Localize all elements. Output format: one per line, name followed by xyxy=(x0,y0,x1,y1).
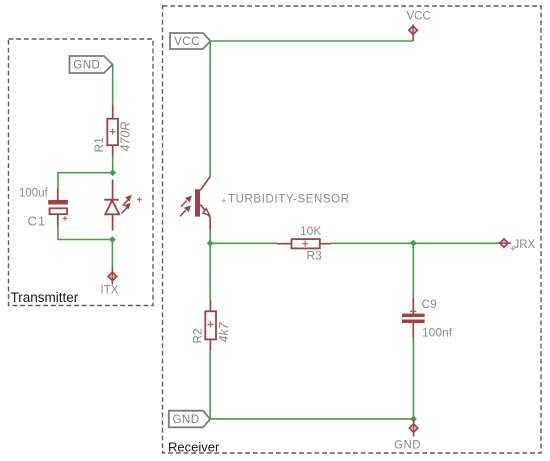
svg-text:470R: 470R xyxy=(119,122,133,152)
svg-text:100uf: 100uf xyxy=(19,188,49,200)
capacitor C1 xyxy=(48,188,68,227)
svg-text:Transmitter: Transmitter xyxy=(11,290,79,305)
plus polarity mark LED xyxy=(137,197,142,202)
svg-text:GND: GND xyxy=(73,60,100,72)
junction node R3/C9/JRX xyxy=(410,240,417,247)
svg-text:GND: GND xyxy=(172,414,199,426)
svg-text:4k7: 4k7 xyxy=(217,321,231,342)
svg-text:C9: C9 xyxy=(422,297,438,311)
resistor R1 xyxy=(107,105,118,157)
svg-text:Receiver: Receiver xyxy=(168,440,220,455)
wire: GND flag to R1 xyxy=(112,65,114,106)
label JRX with origin cross xyxy=(511,239,536,251)
wire: R3 to JRX xyxy=(331,242,498,244)
wire: junction to ITX pin xyxy=(111,240,113,268)
pin ITX xyxy=(108,267,116,285)
Receiver enclosure box xyxy=(163,6,542,453)
resistor R2 xyxy=(205,300,216,351)
svg-text:100nf: 100nf xyxy=(422,326,453,340)
junction node emitter/R3/R2 xyxy=(207,240,214,247)
phototransistor Q1 xyxy=(195,176,210,230)
supply flag GND (receiver) xyxy=(169,411,210,428)
wire: R1 to junction xyxy=(112,157,114,173)
junction node LED/C1/ITX xyxy=(109,236,116,243)
wire: phototransistor to junction xyxy=(209,230,211,243)
svg-text:GND: GND xyxy=(394,439,421,451)
svg-text:ITX: ITX xyxy=(101,285,119,297)
svg-text:10K: 10K xyxy=(300,224,321,238)
wire: C9 to bottom rail xyxy=(412,338,414,419)
wire: VCC top rail xyxy=(211,40,414,42)
wire: VCC flag down to phototransistor xyxy=(209,41,211,177)
pin JRX xyxy=(498,239,511,247)
resistor R3 xyxy=(277,239,331,248)
capacitor C9 xyxy=(402,298,425,338)
wire: junction down to C9 xyxy=(412,243,414,298)
wire: junction to C1 xyxy=(58,173,113,189)
LED D1 xyxy=(104,180,119,231)
junction node C9/GND rail xyxy=(410,416,417,423)
supply flag VCC (receiver) xyxy=(170,33,211,49)
svg-text:R2: R2 xyxy=(191,328,205,344)
svg-text:R3: R3 xyxy=(307,249,323,263)
svg-text:JRX: JRX xyxy=(514,239,536,251)
svg-text:C1: C1 xyxy=(28,214,47,229)
Transmitter enclosure box xyxy=(9,39,154,306)
wire: junction to R3 xyxy=(210,242,277,244)
label TURBIDITY-SENSOR with origin cross xyxy=(222,194,350,206)
svg-text:R1: R1 xyxy=(92,137,106,153)
pin GND (bottom) xyxy=(409,419,417,437)
svg-text:VCC: VCC xyxy=(407,11,431,23)
junction node R1/LED/C1 xyxy=(109,169,116,176)
wire: C1 to bottom junction xyxy=(58,227,112,240)
svg-text:TURBIDITY-SENSOR: TURBIDITY-SENSOR xyxy=(228,194,350,206)
plus polarity mark C1 xyxy=(63,216,68,221)
wire: R2 to GND flag xyxy=(209,351,211,419)
light arrows into phototransistor xyxy=(180,196,191,216)
LED light arrows xyxy=(122,196,131,214)
bottom rail wire xyxy=(210,418,413,420)
wire: junction down to R2 xyxy=(209,243,211,300)
pin VCC xyxy=(409,25,417,42)
svg-text:VCC: VCC xyxy=(174,36,200,48)
supply flag GND (transmitter) xyxy=(70,56,113,73)
